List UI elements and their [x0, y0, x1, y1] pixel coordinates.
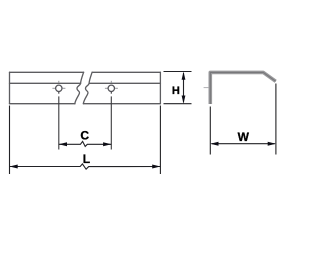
dimension C arrow left — [59, 142, 67, 146]
svg-text:H: H — [172, 85, 180, 97]
dimension H extension lines — [164, 72, 192, 104]
wire inner groove line left — [10, 82, 81, 84]
wire right edge — [159, 72, 161, 103]
dimension H line — [183, 73, 185, 102]
dimension W arrow left — [210, 142, 218, 146]
dimension C line with break jog — [59, 141, 112, 146]
dimension H arrow down — [182, 96, 186, 104]
hole 2 center marks — [105, 81, 118, 89]
hole 1 — [56, 85, 62, 91]
hole 2 center line down — [110, 92, 112, 150]
svg-text:C: C — [80, 129, 89, 143]
dimension W extension line right — [275, 84, 277, 155]
wire top edge right segment — [92, 71, 160, 73]
svg-text:W: W — [238, 130, 250, 144]
dimension L extension line left — [9, 106, 11, 175]
dimension H arrow up — [182, 72, 186, 80]
wire inner groove line right — [89, 82, 160, 84]
side view profile dark core — [210, 72, 275, 104]
dimension C arrow right — [103, 142, 111, 146]
hole 1 center marks — [52, 81, 65, 89]
side view center line tick — [204, 87, 209, 89]
hole 2 — [108, 85, 114, 91]
dimension W arrow right — [268, 142, 276, 146]
side view profile gray body — [210, 72, 275, 104]
hole 1 center line down — [58, 92, 60, 150]
break line left squiggle — [75, 72, 84, 103]
dimension L arrow left — [10, 165, 18, 169]
dimension W extension line left — [209, 107, 211, 155]
break line right squiggle — [83, 72, 92, 103]
wire top edge left segment — [10, 71, 84, 73]
wire bottom edge right segment — [84, 103, 161, 105]
wire left edge — [9, 72, 11, 103]
dimension L arrow right — [152, 165, 160, 169]
front view bar outline — [10, 72, 161, 103]
svg-text:L: L — [83, 152, 90, 166]
dimension L extension line right — [159, 106, 161, 175]
wire bottom edge left segment — [10, 103, 76, 105]
dimension L line with break jog — [10, 164, 161, 169]
dimension W line — [212, 143, 275, 145]
